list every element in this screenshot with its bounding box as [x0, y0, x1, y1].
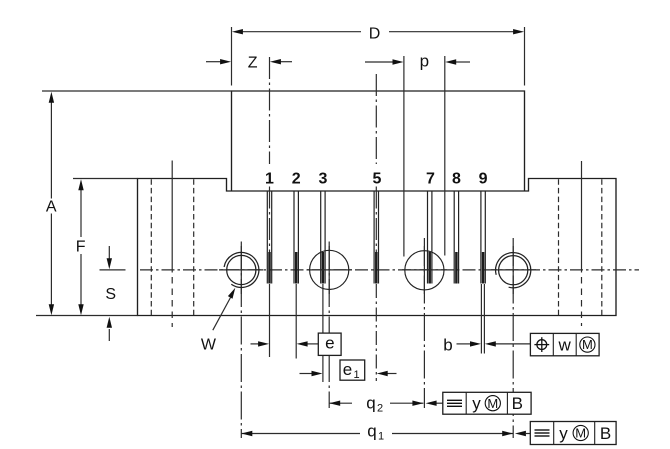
D extension lines	[231, 27, 233, 86]
solid centerline segments through holes	[219, 246, 536, 294]
p extension lines through body	[403, 56, 405, 257]
svg-text:3: 3	[318, 170, 327, 187]
pin 2 / pin 3 extension lines	[295, 284, 297, 359]
svg-text:e: e	[325, 334, 334, 353]
svg-text:2: 2	[377, 403, 383, 415]
svg-text:7: 7	[426, 170, 435, 187]
lead/pin 1	[267, 191, 271, 284]
svg-text:Z: Z	[248, 55, 258, 72]
tolerance box 2	[443, 392, 531, 414]
svg-text:q: q	[367, 422, 376, 441]
svg-text:y: y	[472, 394, 481, 413]
D dimension line	[235, 31, 361, 33]
svg-text:2: 2	[292, 170, 301, 187]
svg-text:w: w	[558, 335, 572, 354]
svg-text:8: 8	[452, 170, 461, 187]
Z dimension	[206, 61, 221, 63]
package body (top rectangle)	[232, 91, 525, 191]
lead/pin 7	[428, 191, 432, 284]
svg-text:9: 9	[479, 170, 488, 187]
tolerance box 1	[530, 333, 599, 355]
svg-text:M: M	[487, 396, 498, 411]
svg-text:y: y	[559, 424, 568, 443]
horizontal centerline	[100, 269, 126, 271]
svg-text:D: D	[369, 26, 381, 43]
tolerance box 3	[530, 422, 616, 445]
svg-text:q: q	[366, 394, 375, 413]
flange centerlines (dash-dot)	[172, 161, 581, 273]
S dimension	[108, 246, 110, 259]
flange outline with steps	[138, 179, 617, 316]
svg-text:F: F	[76, 238, 86, 255]
pin 1 centerline	[269, 57, 271, 164]
svg-text:1: 1	[378, 431, 384, 443]
svg-text:A: A	[46, 199, 57, 216]
svg-text:W: W	[201, 337, 217, 354]
svg-text:p: p	[420, 52, 429, 71]
lead/pin 8	[454, 191, 458, 284]
pin 5 centerline	[375, 74, 377, 164]
vertical centerlines of holes	[241, 238, 513, 438]
svg-text:1: 1	[353, 369, 359, 381]
hidden (dashed) lines in flange	[151, 179, 602, 315]
lead/pin 3	[321, 191, 325, 284]
large hole circle (left, between pins 3 and 5)	[310, 250, 349, 289]
right hole (double circle, outer broken lower-left)	[496, 253, 531, 288]
pin numbers	[265, 170, 488, 187]
svg-text:B: B	[512, 394, 523, 413]
F top extension	[73, 178, 138, 180]
lead/pin 2	[294, 191, 298, 284]
hole W (double circle, outer broken at left)	[224, 252, 259, 287]
A dimension	[50, 95, 52, 199]
svg-text:M: M	[582, 337, 593, 352]
p dimension	[365, 61, 393, 63]
svg-text:B: B	[600, 424, 611, 443]
svg-text:b: b	[443, 335, 452, 354]
svg-text:e: e	[343, 360, 352, 379]
svg-text:M: M	[575, 426, 586, 441]
seating plane extension	[36, 315, 138, 317]
pin 9 edge extension lines (for b)	[480, 284, 482, 354]
F dimension	[80, 183, 82, 237]
svg-text:1: 1	[265, 170, 274, 187]
large hole circle (right, at pin 7, dimension p reference)	[405, 251, 444, 290]
lead/pin 9	[481, 191, 485, 284]
lead/pin 5	[374, 191, 378, 284]
top extension (body top)	[42, 90, 232, 92]
svg-text:S: S	[105, 286, 116, 303]
svg-text:5: 5	[373, 170, 382, 187]
